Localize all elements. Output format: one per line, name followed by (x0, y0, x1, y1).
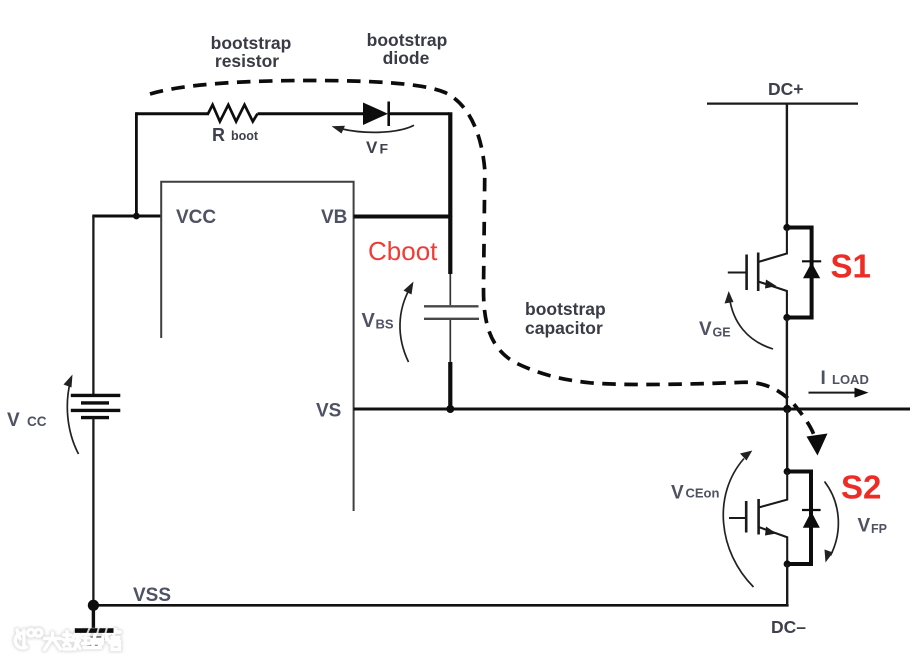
svg-text:V: V (7, 410, 20, 431)
battery Vcc (92, 216, 94, 394)
svg-text:LOAD: LOAD (832, 372, 869, 387)
svg-text:R: R (212, 125, 225, 145)
S1 top node (783, 224, 790, 231)
svg-text:S1: S1 (831, 248, 871, 285)
svg-text:FP: FP (871, 522, 887, 536)
S2 bottom node (784, 560, 791, 567)
watermark (15, 629, 120, 649)
capacitor plates (424, 305, 479, 307)
wire output node to S2 (786, 409, 788, 472)
S1 bottom node (783, 314, 790, 321)
junction cap-VS (446, 405, 454, 413)
output node (783, 405, 791, 413)
VCEon arc arrow (723, 459, 753, 588)
svg-text:resistor: resistor (215, 51, 279, 71)
S2 IGBT body (759, 472, 788, 508)
dashed path arrowhead (807, 434, 828, 456)
resistor R_boot (208, 105, 258, 122)
wire VS pin / output line (354, 408, 910, 411)
svg-text:BS: BS (376, 317, 394, 332)
capacitor Cboot branch upper (448, 217, 452, 275)
junction VCC node (133, 213, 140, 220)
svg-text:bootstrap: bootstrap (525, 299, 606, 319)
svg-text:VSS: VSS (133, 585, 171, 606)
svg-text:Cboot: Cboot (368, 236, 438, 266)
wire VB pin (354, 215, 452, 219)
svg-text:F: F (380, 141, 389, 157)
svg-text:VB: VB (321, 207, 347, 228)
S2 diode (802, 509, 821, 511)
svg-text:GE: GE (713, 326, 731, 340)
junction VSS node (88, 600, 99, 611)
S1 diode (802, 260, 821, 262)
S1 IGBT body (758, 228, 787, 263)
svg-text:capacitor: capacitor (525, 318, 603, 338)
Vcc arc arrow (67, 381, 78, 454)
svg-text:bootstrap: bootstrap (367, 30, 448, 50)
VF arc arrow (340, 125, 414, 132)
VBS arc arrow (400, 289, 410, 362)
ground (92, 605, 95, 628)
wire loop left vertical (135, 112, 138, 217)
svg-text:CC: CC (27, 414, 47, 429)
VFP arc arrow (825, 482, 839, 556)
svg-text:bootstrap: bootstrap (211, 33, 292, 53)
svg-text:VS: VS (316, 401, 341, 422)
dashed bootstrap current path (150, 81, 814, 436)
wire diode to corner and down to VB (388, 112, 449, 115)
wire resistor to diode (258, 112, 364, 115)
wire VCC pin (92, 215, 161, 218)
VGE arc arrow (730, 298, 774, 349)
svg-text:CEon: CEon (686, 486, 720, 501)
wire DC+ to S1 (786, 104, 788, 228)
wire top-left loop horizontal (136, 112, 209, 115)
ground top bar (75, 628, 114, 633)
svg-text:S2: S2 (841, 469, 881, 506)
svg-text:V: V (858, 516, 871, 537)
svg-text:V: V (699, 319, 712, 340)
S1 freewheel diode branch (787, 228, 812, 318)
svg-text:V: V (366, 138, 378, 157)
wire S2 to DC- (786, 564, 788, 605)
svg-text:V: V (671, 483, 684, 504)
S2 top node (784, 468, 791, 475)
I LOAD arrow (809, 392, 857, 394)
label bootstrap resistor (211, 33, 292, 71)
wire S1 to output node (786, 318, 788, 410)
DC+ rail (707, 102, 858, 104)
wire VSS bottom rail (93, 604, 788, 607)
svg-text:DC+: DC+ (768, 79, 804, 99)
S2 freewheel diode branch (787, 472, 811, 565)
IC box (open) (161, 182, 353, 511)
svg-text:V: V (362, 310, 376, 332)
svg-text:diode: diode (383, 48, 430, 68)
diode D_boot (363, 103, 388, 126)
svg-text:I: I (821, 368, 826, 389)
label bootstrap capacitor (525, 299, 606, 338)
svg-text:VCC: VCC (176, 207, 216, 228)
label bootstrap diode (367, 30, 448, 68)
capacitor branch lower (449, 320, 451, 362)
svg-text:DC–: DC– (771, 617, 806, 637)
svg-text:boot: boot (231, 129, 259, 143)
